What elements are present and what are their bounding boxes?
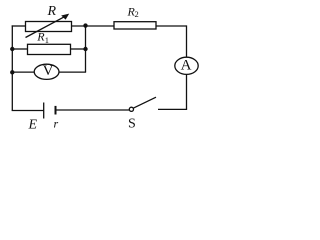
wire R1 row right: [71, 48, 86, 50]
svg-text:1: 1: [45, 35, 49, 45]
junction node R1 left: [10, 47, 14, 51]
resistor R2 body: [114, 22, 156, 29]
wire top left: [12, 25, 26, 27]
junction node V left: [10, 70, 14, 74]
battery short plate: [55, 106, 57, 115]
wire right vertical lower: [186, 74, 188, 109]
wire bottom left: [12, 110, 44, 112]
rheostat R arrowhead: [61, 14, 69, 20]
svg-text:R: R: [47, 4, 57, 19]
wire mid vertical: [85, 26, 87, 72]
wire bottom right: [158, 108, 187, 110]
voltmeter V body: [34, 64, 59, 79]
wire right vertical upper: [186, 25, 188, 57]
rheostat R arrow: [26, 16, 66, 37]
wire bottom switch to battery: [56, 109, 129, 111]
svg-text:2: 2: [135, 9, 139, 19]
junction node top: [83, 23, 87, 27]
ammeter A body: [175, 57, 198, 74]
wire left vertical: [11, 25, 13, 110]
svg-text:S: S: [128, 116, 136, 130]
wire top right: [156, 25, 187, 27]
battery long plate: [43, 103, 45, 119]
switch S blade: [133, 97, 156, 108]
wire voltmeter left: [12, 71, 34, 73]
wire voltmeter right: [59, 71, 86, 73]
junction node R1 right: [83, 47, 87, 51]
rheostat R body: [26, 22, 72, 32]
svg-text:E: E: [28, 118, 38, 130]
switch S pivot: [129, 107, 133, 111]
svg-text:A: A: [181, 57, 192, 73]
wire top mid: [72, 25, 115, 27]
svg-text:r: r: [54, 117, 59, 131]
wire R1 row left: [12, 48, 27, 50]
resistor R1 body: [28, 44, 71, 54]
svg-text:V: V: [43, 63, 54, 79]
